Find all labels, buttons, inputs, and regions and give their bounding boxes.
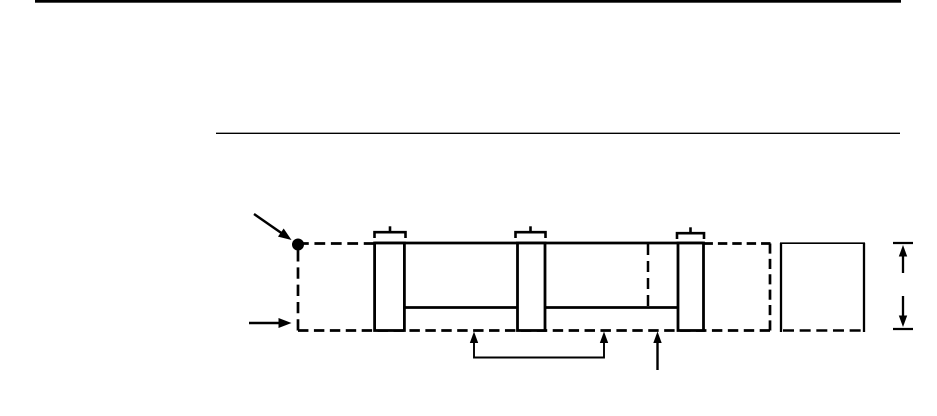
- leader arrow to deck left edge: [249, 318, 292, 328]
- leader arrow to dot: [254, 214, 294, 244]
- bottom chord: [404, 306, 678, 309]
- deck dashed outline: top-left segment: [298, 242, 375, 245]
- bearing bracket over post 2: [516, 226, 546, 238]
- post 1: [375, 243, 405, 331]
- end block top edge: [780, 242, 865, 244]
- deck dashed outline: right edge: [769, 244, 772, 331]
- depth dimension: upper arrow: [899, 245, 907, 273]
- depth dimension: bottom tick: [893, 328, 913, 330]
- reference dot at deck corner: [292, 239, 304, 251]
- section divider rule: [216, 132, 900, 134]
- top chord: [375, 242, 704, 245]
- end block bottom dashed edge: [783, 329, 862, 332]
- leader arrow (vertical, bottom): [653, 332, 661, 371]
- hidden line (dashed vertical) inside deck: [647, 244, 650, 306]
- depth dimension: top tick: [893, 242, 913, 244]
- post 3: [678, 243, 704, 331]
- bearing bracket over post 1: [375, 226, 406, 238]
- page top rule: [35, 0, 901, 3]
- deck dashed outline: bottom edge: [298, 329, 770, 332]
- span reference bracket with up arrows (bottom): [470, 332, 608, 358]
- end block (right square): solid left and right edges: [780, 243, 782, 332]
- bearing bracket over post 3: [677, 227, 704, 239]
- deck dashed outline: left edge: [297, 249, 300, 331]
- deck dashed outline: top-right segment: [704, 242, 771, 245]
- depth dimension: lower arrow: [899, 296, 907, 327]
- post 2: [518, 243, 546, 331]
